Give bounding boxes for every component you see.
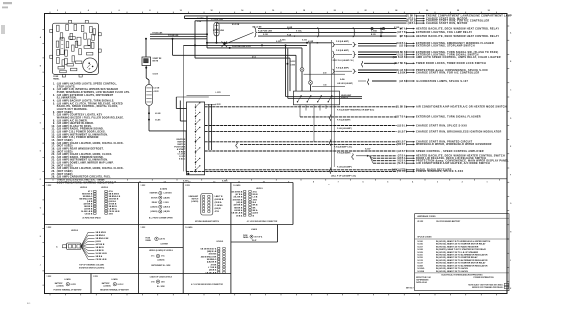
connector brace rows 5-7 far left bbox=[254, 28, 272, 37]
svg-text:TIMER DOOR LOCKS, TIMER DOOR L: TIMER DOOR LOCKS, TIMER DOOR LOCK SWITCH bbox=[416, 62, 486, 65]
wire charge start run motor 2 bbox=[217, 22, 468, 25]
wire fog lamp relay bbox=[258, 31, 472, 34]
svg-text:(47 B A: (47 B A bbox=[235, 193, 242, 196]
brace rows 8-9 bbox=[332, 40, 355, 47]
connector view 26-function plug bbox=[47, 185, 121, 219]
svg-text:30: 30 bbox=[488, 10, 490, 12]
wire drop x310 bbox=[309, 43, 311, 81]
svg-text:IN (HOOD), NEAR T-B TO W/REDHO: IN (HOOD), NEAR T-B TO W/REDHOLD & WIPER… bbox=[436, 240, 491, 243]
svg-text:453 B BN/LG BK: 453 B BN/LG BK bbox=[201, 255, 217, 258]
svg-text:ILLUMINATION LAMPS, SPLICE S-1: ILLUMINATION LAMPS, SPLICE S-107 bbox=[416, 80, 469, 83]
svg-text:(SL BK B: (SL BK B bbox=[396, 107, 406, 109]
svg-text:(LOADS): (LOADS) bbox=[150, 210, 157, 213]
starter relay bbox=[142, 57, 162, 75]
svg-text:8 IGNITION SWITCH (LIGHTS): 8 IGNITION SWITCH (LIGHTS) bbox=[79, 267, 105, 269]
svg-text:ON XXXX BEHIND BATTERY: ON XXXX BEHIND BATTERY bbox=[436, 220, 461, 223]
svg-text:POWER WINDOWS, SPLICE S-XXX: POWER WINDOWS, SPLICE S-XXX bbox=[416, 170, 463, 173]
svg-text:LG GN: LG GN bbox=[154, 88, 160, 90]
svg-text:F-LB FUSE LINK: F-LB FUSE LINK bbox=[258, 30, 273, 32]
svg-text:HEATED BACKLITE, DECK WINDOW H: HEATED BACKLITE, DECK WINDOW HEAT CONTRO… bbox=[416, 35, 499, 38]
sub labels right column bbox=[331, 108, 374, 177]
svg-text:C-38 B: C-38 B bbox=[163, 202, 169, 204]
wire fuse panel feeds (fuse links) bbox=[150, 32, 207, 38]
svg-text:LEVELS: LEVELS bbox=[217, 241, 224, 243]
svg-text:S-137: S-137 bbox=[417, 263, 423, 265]
svg-text:LLB LB B (LB AMP): LLB LB B (LB AMP) bbox=[337, 82, 353, 85]
svg-text:(LOADS): (LOADS) bbox=[191, 200, 198, 203]
svg-text:(LB B L: (LB B L bbox=[397, 125, 406, 127]
accessory feed double bus bbox=[285, 44, 363, 98]
instrument side eyelet view bbox=[149, 249, 174, 267]
wire protection convenience splice bbox=[358, 69, 488, 72]
detail box grid bbox=[45, 183, 294, 294]
svg-text:CHARGE START RUN, MOTOR: CHARGE START RUN, MOTOR bbox=[426, 22, 468, 25]
fuse panel bus drop left bbox=[184, 45, 187, 171]
svg-text:DATE 4-5-84: DATE 4-5-84 bbox=[416, 281, 426, 284]
wire speed control amplifier bbox=[205, 150, 484, 153]
svg-text:S-106: S-106 bbox=[417, 244, 423, 246]
svg-text:20: 20 bbox=[334, 10, 336, 12]
wire turn signal flasher bbox=[300, 116, 481, 119]
svg-text:LOADS: LOADS bbox=[111, 278, 118, 281]
ignition switch left feeds bbox=[176, 92, 221, 121]
svg-text:S 103B: S 103B bbox=[394, 27, 400, 29]
svg-text:(196 B LB B: (196 B LB B bbox=[393, 57, 406, 59]
svg-text:NOTE ELECT 1967 FOR PAGE XXX M: NOTE ELECT 1967 FOR PAGE XXX MOD L bbox=[468, 283, 504, 286]
wire branch y86.3 bbox=[312, 84, 345, 86]
svg-text:EXTERIOR LIGHTING, STOPLAMP SW: EXTERIOR LIGHTING, STOPLAMP SWITCH bbox=[416, 45, 475, 48]
svg-text:B.L. FRONT CORNER UPPER: B.L. FRONT CORNER UPPER bbox=[149, 217, 173, 219]
wire turn signal flash-to-pass bbox=[358, 51, 498, 54]
svg-text:26: 26 bbox=[426, 10, 428, 12]
svg-text:2: 2 bbox=[462, 181, 463, 183]
svg-text:(LOADS): (LOADS) bbox=[160, 188, 167, 191]
wire ignition modulator bbox=[205, 130, 502, 133]
svg-text:SWITCH: SWITCH bbox=[341, 98, 349, 100]
svg-text:(LB B: (LB B bbox=[399, 81, 405, 83]
svg-text:SB BN/LG: SB BN/LG bbox=[96, 235, 106, 237]
svg-text:POSITIVE TERMINAL OF BATTERY: POSITIVE TERMINAL OF BATTERY bbox=[54, 288, 83, 291]
svg-text:S-115: S-115 bbox=[417, 255, 423, 257]
svg-text:(LB) B A: (LB) B A bbox=[163, 206, 170, 209]
svg-text:SB BK B: SB BK B bbox=[96, 247, 105, 249]
wire charge start run splice bbox=[205, 124, 468, 127]
svg-text:LEVELS: LEVELS bbox=[256, 188, 263, 190]
svg-text:S-109: S-109 bbox=[417, 252, 423, 254]
svg-text:AMPERAGE CODES: AMPERAGE CODES bbox=[417, 215, 436, 218]
svg-text:447 BK B: 447 BK B bbox=[234, 204, 243, 207]
svg-text:J: J bbox=[510, 260, 511, 262]
wire printed circuit feed bbox=[205, 141, 473, 144]
svg-text:B.L. SIDE: B.L. SIDE bbox=[157, 286, 165, 288]
svg-text:LEVELS: LEVELS bbox=[71, 230, 79, 232]
wire stoplamp switch bbox=[358, 45, 475, 48]
battery positive terminal view bbox=[47, 276, 83, 291]
wire timer door lock switch bbox=[364, 62, 486, 65]
wire bus horizontal y47.9 bbox=[207, 46, 302, 49]
svg-text:AIR CONDITIONER A/HP HEATER, A: AIR CONDITIONER A/HP HEATER, A/C MODE SW… bbox=[416, 162, 490, 165]
svg-text:CB 38 LB B: CB 38 LB B bbox=[96, 259, 107, 261]
svg-text:LOADS: LOADS bbox=[64, 278, 71, 281]
svg-text:OUT OF A: OUT OF A bbox=[254, 235, 263, 238]
wire bus horizontal y45.4 bbox=[184, 44, 308, 46]
svg-text:1: 1 bbox=[486, 181, 487, 183]
svg-text:LOADS: LOADS bbox=[251, 228, 258, 231]
svg-text:LIGHTER: LIGHTER bbox=[161, 243, 169, 245]
svg-text:S-133: S-133 bbox=[417, 260, 423, 262]
svg-text:4 LBR: 4 LBR bbox=[308, 40, 314, 43]
svg-text:L XXX: L XXX bbox=[216, 92, 222, 94]
ruler tick marks left edge bbox=[42, 30, 44, 286]
svg-text:AIR CONDITIONER A/HP HEATER,A/: AIR CONDITIONER A/HP HEATER,A/C OR HEATE… bbox=[416, 106, 507, 109]
svg-text:(9 LB T: (9 LB T bbox=[398, 131, 406, 133]
svg-text:B-109: B-109 bbox=[371, 34, 376, 36]
svg-text:IN (PASTE), NEAR T-38 TO START: IN (PASTE), NEAR T-38 TO STARTER MOTOR R… bbox=[436, 248, 487, 251]
wire a/c controller bbox=[358, 71, 479, 74]
svg-text:4 LUB: 4 LUB bbox=[155, 112, 161, 115]
wire a/c mode switch bbox=[373, 162, 490, 165]
svg-text:6: 6 bbox=[362, 181, 363, 183]
svg-text:C-38 MS: C-38 MS bbox=[215, 205, 224, 207]
splice node S-109 rows 5-7 bbox=[371, 28, 385, 38]
svg-text:CB 38 LB B: CB 38 LB B bbox=[205, 272, 216, 274]
svg-text:(SL B A: (SL B A bbox=[397, 162, 406, 165]
wire drop x296 bbox=[295, 55, 297, 91]
svg-text:SPEED CONTROL , SPEED CONTROL: SPEED CONTROL , SPEED CONTROL AMPLIFIER bbox=[416, 150, 484, 153]
node below starter relay bbox=[145, 66, 149, 85]
svg-text:NEGATIVE TERMINAL OF BATTERY: NEGATIVE TERMINAL OF BATTERY bbox=[100, 288, 130, 291]
svg-text:LOADS OF LOADS LEVELS: LOADS OF LOADS LEVELS bbox=[150, 275, 173, 278]
bulkhead connector C-1 bbox=[146, 84, 160, 105]
svg-text:(PW PW: (PW PW bbox=[397, 171, 407, 173]
svg-text:RELAY: RELAY bbox=[152, 201, 158, 204]
svg-text:(LOADS): (LOADS) bbox=[150, 206, 157, 209]
ignition column double feed bbox=[176, 95, 230, 150]
wire drop x290 bbox=[289, 58, 291, 91]
connector brace rows 5-7 left bbox=[288, 28, 320, 37]
wire heated backlite relay bbox=[258, 27, 499, 30]
svg-text:12: 12 bbox=[210, 10, 212, 12]
svg-text:26 FUNCTION SPACE: 26 FUNCTION SPACE bbox=[82, 216, 101, 219]
fuse panel tulip view bbox=[243, 228, 263, 242]
svg-text:AMB AUTO SPEED CONTROL, AMPS R: AMB AUTO SPEED CONTROL, AMPS RELAY, CIGA… bbox=[416, 56, 501, 59]
svg-text:4 C LOCUS BUS MOVING CONNECTOR: 4 C LOCUS BUS MOVING CONNECTOR bbox=[191, 283, 223, 286]
svg-text:6: 6 bbox=[119, 10, 120, 12]
svg-text:447 BK B: 447 BK B bbox=[96, 243, 105, 246]
svg-text:STARTER: STARTER bbox=[149, 192, 158, 195]
brace rows 10-12 bbox=[332, 49, 355, 58]
svg-text:(LB B: (LB B bbox=[96, 241, 102, 243]
svg-text:(LB BK B: (LB BK B bbox=[215, 199, 224, 201]
svg-text:IN (HOOD), NEAR T-38 TO JACKS: IN (HOOD), NEAR T-38 TO JACKS bbox=[436, 270, 469, 273]
svg-text:B A: B A bbox=[253, 201, 257, 204]
svg-text:SB B A: SB B A bbox=[96, 255, 103, 258]
battery negative terminal view bbox=[93, 276, 130, 291]
wires below headlamp switch bbox=[300, 105, 326, 142]
svg-text:IN (HOOD), NEAR T-38 TO ALTERN: IN (HOOD), NEAR T-38 TO ALTERNATOR REGUL… bbox=[436, 254, 488, 257]
wire power windows splice bbox=[186, 170, 463, 173]
svg-text:(LB) B: (LB) B bbox=[215, 208, 222, 210]
svg-text:8: 8 bbox=[313, 181, 314, 183]
svg-text:(LB T B A: (LB T B A bbox=[395, 116, 406, 119]
wire speed control amps relay bbox=[358, 56, 501, 59]
brace rows 14-15 bbox=[332, 66, 355, 73]
svg-text:IN (HOOD), NEAR T-38 TO STARTE: IN (HOOD), NEAR T-38 TO STARTER MOTOR RE… bbox=[436, 243, 486, 246]
svg-text:S-307: S-307 bbox=[365, 148, 371, 150]
svg-text:SB B MS B: SB B MS B bbox=[96, 232, 107, 234]
svg-text:F-N (LB AMP): F-N (LB AMP) bbox=[337, 118, 351, 121]
svg-text:IN (HOOD), NEAR T-38 TO RADIO: IN (HOOD), NEAR T-38 TO RADIO RECEIVER bbox=[436, 245, 479, 248]
svg-text:28: 28 bbox=[457, 10, 459, 12]
wire a/c controller feed bbox=[195, 20, 489, 23]
inline fuse symbols bbox=[300, 68, 313, 92]
wire charge start run motor bbox=[185, 17, 468, 20]
ignition switch bbox=[187, 102, 205, 175]
svg-text:F-N (LB AMP): F-N (LB AMP) bbox=[336, 40, 349, 43]
svg-text:3: 3 bbox=[437, 181, 438, 183]
svg-text:S-108: S-108 bbox=[417, 249, 423, 251]
mid arrows rows 5-7 bbox=[394, 27, 402, 37]
svg-text:F-LB (LB AMP): F-LB (LB AMP) bbox=[337, 127, 352, 130]
svg-text:S-100: S-100 bbox=[417, 241, 423, 243]
svg-text:3.: 3. bbox=[53, 94, 56, 97]
fuse panel lighter view bbox=[141, 227, 169, 245]
svg-text:SET NO.7: SET NO.7 bbox=[406, 287, 414, 289]
svg-text:SB BN/LG BK: SB BN/LG BK bbox=[96, 238, 110, 240]
lock bus moving connector view upper bbox=[231, 184, 278, 223]
svg-text:S-107: S-107 bbox=[417, 246, 423, 248]
svg-text:47 BK: 47 BK bbox=[211, 263, 217, 266]
fitting row 16 bbox=[337, 78, 369, 85]
svg-text:IN (HOOD), NEAR T-38 TO ALTERN: IN (HOOD), NEAR T-38 TO ALTERNATOR REGUL… bbox=[436, 259, 488, 262]
svg-text:LEVELS: LEVELS bbox=[80, 187, 88, 189]
svg-text:47 A: 47 A bbox=[253, 190, 258, 193]
svg-text:LEVELS (LOADS) OF LEVELS: LEVELS (LOADS) OF LEVELS bbox=[149, 249, 174, 252]
svg-text:C-38 MS B: C-38 MS B bbox=[163, 193, 172, 195]
wire emergency warning flasher bbox=[358, 42, 494, 45]
svg-text:F-LB: F-LB bbox=[197, 21, 202, 23]
svg-text:LB BK A: LB BK A bbox=[234, 209, 243, 212]
svg-text:S-120: S-120 bbox=[263, 34, 268, 36]
svg-text:(LOADS): (LOADS) bbox=[157, 258, 164, 261]
svg-text:(SL7 BK B: (SL7 BK B bbox=[394, 63, 406, 65]
svg-text:SPLICE CODES: SPLICE CODES bbox=[417, 237, 432, 239]
svg-text:7 FUSE LINK: 7 FUSE LINK bbox=[152, 32, 163, 34]
svg-text:E ACC: E ACC bbox=[179, 158, 186, 161]
splice code table bbox=[406, 214, 509, 291]
wire deck lid release switch bbox=[373, 157, 486, 160]
svg-text:8: 8 bbox=[149, 10, 150, 12]
svg-text:(LB) BN: (LB) BN bbox=[163, 211, 170, 213]
wire engine compartment lamp bbox=[185, 15, 512, 18]
svg-text:S-109S: S-109S bbox=[417, 271, 424, 273]
svg-text:G-XXX: G-XXX bbox=[71, 284, 77, 286]
wire a/c heater mode switch bbox=[205, 106, 507, 109]
svg-text:W-XXX: W-XXX bbox=[417, 221, 424, 223]
svg-text:WINDSHIELD WIPER, WINDSHIELD W: WINDSHIELD WIPER, WINDSHIELD WIPER GOVER… bbox=[416, 143, 492, 146]
svg-text:BK RE: BK RE bbox=[153, 60, 159, 62]
svg-text:HEADLAMP: HEADLAMP bbox=[341, 94, 352, 97]
svg-text:S 109L: S 109L bbox=[296, 31, 303, 33]
ruler tick marks bottom edge bbox=[50, 294, 497, 296]
svg-text:S-XXX: S-XXX bbox=[153, 73, 159, 75]
wire bus horizontal y42.8 bbox=[207, 32, 332, 47]
wire bus horizontal y58.1 bbox=[195, 30, 290, 58]
svg-text:(LOADS): (LOADS) bbox=[56, 284, 63, 287]
ignition switch position legend bbox=[174, 139, 186, 161]
svg-text:47 B: 47 B bbox=[215, 210, 220, 213]
left bus vertical feeder bbox=[332, 40, 335, 171]
svg-text:F-N (LB AMP C.B.): F-N (LB AMP C.B.) bbox=[334, 146, 352, 149]
svg-text:S-109G: S-109G bbox=[417, 268, 424, 270]
svg-text:CHARGE START RUN, SPLICE S-XXX: CHARGE START RUN, SPLICE S-XXX bbox=[416, 124, 467, 127]
fitting row 13 bbox=[332, 59, 363, 67]
svg-text:S-118: S-118 bbox=[417, 257, 423, 259]
svg-text:(LB) BN: (LB) BN bbox=[163, 197, 170, 199]
svg-text:5: 5 bbox=[387, 181, 388, 183]
svg-text:CHARGE START RUN, FOR A/C CONT: CHARGE START RUN, FOR A/C CONTROLLER bbox=[416, 71, 479, 74]
ruler tick marks top edge bbox=[50, 12, 497, 14]
wire main wiper display panel bbox=[373, 159, 509, 162]
wire illumination lamps splice bbox=[372, 80, 469, 83]
svg-text:IN (HOOD), NEAR T-38 TO JACKS: IN (HOOD), NEAR T-38 TO JACKS bbox=[436, 267, 469, 270]
svg-text:(38 B A: (38 B A bbox=[408, 22, 416, 25]
svg-text:S-908: S-908 bbox=[417, 265, 423, 267]
svg-text:MOVING HEADLAMP SWITCH: MOVING HEADLAMP SWITCH bbox=[195, 220, 220, 223]
B.L. side eyelet view bbox=[150, 275, 173, 288]
svg-text:S-XXX: S-XXX bbox=[280, 39, 286, 41]
svg-text:10: 10 bbox=[180, 10, 182, 12]
svg-text:4 XXX: 4 XXX bbox=[154, 90, 160, 93]
svg-text:IN (HOOD), NEAR T-38 TO STARTE: IN (HOOD), NEAR T-38 TO STARTER RELAY bbox=[436, 256, 478, 259]
fan arrow rows 24-27 bbox=[352, 154, 373, 164]
svg-text:LB BK B: LB BK B bbox=[96, 250, 105, 252]
wire drop x195 bbox=[194, 21, 196, 58]
svg-text:38 B A: 38 B A bbox=[236, 214, 243, 217]
svg-text:(38) B A: (38) B A bbox=[209, 269, 217, 272]
svg-text:HEADLAMP: HEADLAMP bbox=[189, 195, 199, 198]
svg-text:(LB B T: (LB B T bbox=[397, 151, 406, 153]
svg-text:2: 2 bbox=[57, 10, 58, 12]
svg-text:1 XXXX F-LU (LB AMP C.B.): 1 XXXX F-LU (LB AMP C.B.) bbox=[332, 59, 354, 62]
svg-text:EXTERIOR LIGHTING, FOG LAMP RE: EXTERIOR LIGHTING, FOG LAMP RELAY bbox=[416, 31, 472, 34]
svg-text:(LB BK: (LB BK bbox=[398, 72, 406, 74]
headlamp switch box bbox=[293, 91, 352, 105]
svg-text:(LB T B: (LB T B bbox=[397, 32, 406, 34]
svg-text:(LB TO: (LB TO bbox=[160, 239, 166, 241]
connector brace rows 5-7 right bbox=[321, 28, 355, 37]
fuse legend list bbox=[51, 83, 130, 185]
svg-text:1 LOADS: 1 LOADS bbox=[233, 184, 241, 187]
wire radio receiver bbox=[205, 169, 452, 172]
svg-text:ELECTRICAL SYSTEMS (AND) RUSTP: ELECTRICAL SYSTEMS (AND) RUSTPROOFING bbox=[442, 273, 484, 276]
wire heat control relay bbox=[258, 35, 499, 38]
svg-text:BR-LG BN: BR-LG BN bbox=[253, 26, 262, 28]
svg-text:7: 7 bbox=[338, 181, 339, 183]
svg-text:F FUSE LINK: F FUSE LINK bbox=[168, 35, 179, 37]
svg-text:F-LB (LB AMP): F-LB (LB AMP) bbox=[337, 165, 352, 168]
svg-text:INSTRUMENT B.L. SIDE: INSTRUMENT B.L. SIDE bbox=[151, 265, 171, 267]
svg-text:PANEL: PANEL bbox=[146, 239, 152, 242]
svg-text:HEATED BACKLITE, DECK WINDOW H: HEATED BACKLITE, DECK WINDOW HEAT CONTRO… bbox=[416, 27, 499, 30]
svg-text:J: J bbox=[40, 264, 41, 266]
svg-text:LEVELS: LEVELS bbox=[101, 187, 109, 189]
svg-text:38 B: 38 B bbox=[109, 213, 114, 215]
svg-text:LBB T B: LBB T B bbox=[215, 196, 223, 198]
squiggles on lower dashed rows bbox=[236, 115, 331, 174]
svg-text:(963 D T: (963 D T bbox=[397, 144, 407, 146]
connector view steering column plug bbox=[47, 227, 110, 269]
svg-text:9 LBR: 9 LBR bbox=[287, 27, 293, 29]
svg-text:(LB B: (LB B bbox=[399, 46, 405, 48]
svg-text:2.: 2. bbox=[53, 88, 56, 91]
svg-text:5.: 5. bbox=[53, 102, 56, 105]
svg-text:CHARGE START RUN, BRUSHHOLESS: CHARGE START RUN, BRUSHHOLESS IGNITION M… bbox=[416, 130, 501, 133]
wire branch y74.2 bbox=[304, 71, 346, 74]
svg-text:6 LBS: 6 LBS bbox=[155, 119, 161, 121]
fuse link labels rows 5-7 bbox=[280, 27, 307, 41]
svg-text:EXTERIOR LIGHTING, TURN SIGNAL: EXTERIOR LIGHTING, TURN SIGNAL FLASHER bbox=[416, 116, 481, 119]
svg-text:IN (HOOD), NEAR T-38 TO STARTE: IN (HOOD), NEAR T-38 TO STARTER MOTOR RE… bbox=[436, 262, 486, 265]
zone ruler mid line bbox=[45, 178, 508, 180]
wire turn signal switch bbox=[358, 53, 479, 56]
svg-text:(38 B A: (38 B A bbox=[215, 201, 222, 204]
svg-text:1 LOADS: 1 LOADS bbox=[185, 226, 193, 229]
wire battery bus from fuse panel bbox=[172, 38, 297, 56]
bus id labels bbox=[197, 18, 262, 28]
svg-text:22: 22 bbox=[364, 10, 366, 12]
svg-text:28.: 28. bbox=[51, 176, 55, 179]
svg-text:CB 38 B: CB 38 B bbox=[85, 213, 93, 215]
svg-text:PANEL: PANEL bbox=[243, 236, 249, 239]
svg-text:4 C LOCK BUS MOVING CONNECTOR: 4 C LOCK BUS MOVING CONNECTOR bbox=[247, 220, 278, 223]
svg-text:F FUSE LINK: F FUSE LINK bbox=[213, 30, 225, 32]
svg-text:G-XX-X: G-XX-X bbox=[118, 284, 125, 286]
svg-text:F-N (LB AMP HEATERS) OR AMP A/: F-N (LB AMP HEATERS) OR AMP A/C) bbox=[337, 108, 374, 111]
svg-text:16: 16 bbox=[272, 10, 274, 12]
svg-text:IN (HOOD), NEAR T-38 TO ALTERN: IN (HOOD), NEAR T-38 TO ALTERNATOR REGUL… bbox=[436, 264, 488, 267]
svg-text:7.: 7. bbox=[53, 114, 56, 117]
svg-text:SL BK LB B: SL BK LB B bbox=[96, 253, 108, 255]
svg-text:LBLL F OF (LB AMP C.B.): LBLL F OF (LB AMP C.B.) bbox=[331, 174, 356, 177]
svg-text:CB 38 MS B 47 A: CB 38 MS B 47 A bbox=[200, 247, 216, 250]
svg-text:MOTOR: MOTOR bbox=[151, 197, 158, 199]
fusible link F-2 bbox=[211, 19, 224, 44]
starter motor relay eyelet view bbox=[141, 185, 174, 219]
wire starter relay feed vertical bbox=[145, 38, 147, 57]
svg-text:(LOADS): (LOADS) bbox=[103, 284, 110, 287]
svg-text:S-109: S-109 bbox=[302, 39, 307, 41]
svg-text:1 XXX: 1 XXX bbox=[216, 104, 222, 106]
locus bus moving connector view lower bbox=[185, 226, 225, 286]
svg-text:PANEL: PANEL bbox=[53, 77, 60, 80]
svg-text:F-LB FUSE LINK S-XXX: F-LB FUSE LINK S-XXX bbox=[232, 46, 252, 48]
svg-text:POWER DISTRIBUTION: POWER DISTRIBUTION bbox=[474, 277, 495, 279]
svg-text:F-N (LB AMP): F-N (LB AMP) bbox=[336, 49, 349, 52]
node main bus top bbox=[185, 16, 209, 48]
svg-text:TOP OF STEERING COLUMN: TOP OF STEERING COLUMN bbox=[79, 265, 104, 267]
wire connector to ignition feed bbox=[148, 106, 187, 131]
svg-text:F-N (LB AMP): F-N (LB AMP) bbox=[337, 152, 351, 155]
border frame bbox=[45, 14, 508, 294]
headlamp switch knob circle on fuse panel bbox=[83, 58, 98, 73]
svg-text:BK A: BK A bbox=[253, 209, 258, 212]
fuse panel caption bbox=[53, 76, 60, 80]
wire deck window heater control switch bbox=[373, 155, 505, 158]
page margin marks top left bbox=[1, 2, 12, 34]
splice labels under ruler bbox=[183, 181, 330, 186]
wire drop x302 bbox=[301, 48, 303, 68]
